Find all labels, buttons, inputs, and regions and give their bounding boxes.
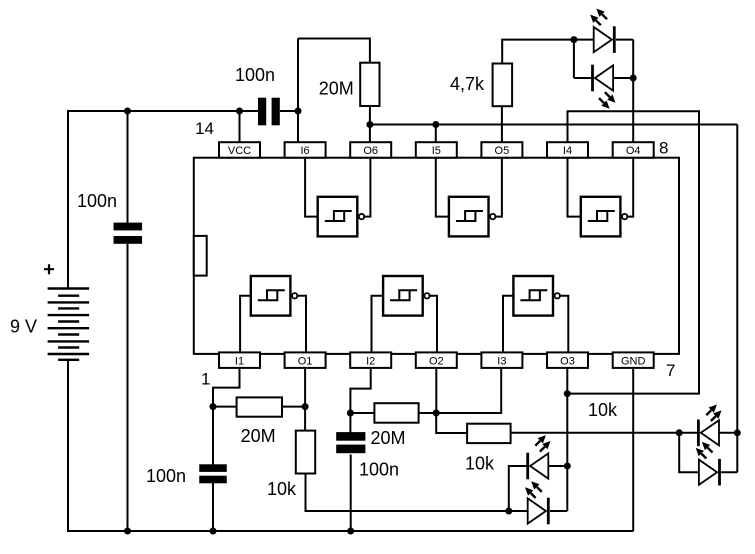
gate U1D input wire	[568, 158, 581, 217]
resistor 10k at O2	[467, 424, 511, 443]
junction ground decoupling	[124, 528, 131, 535]
wire D3 anode lead	[549, 465, 567, 467]
svg-text:I6: I6	[301, 145, 310, 157]
gate U1F input wire	[305, 158, 318, 217]
junction O2 node	[433, 410, 440, 417]
junction O3 node	[564, 390, 571, 397]
svg-text:100n: 100n	[359, 459, 399, 479]
svg-text:I5: I5	[432, 145, 441, 157]
wire C1 bottom lead	[212, 483, 214, 531]
svg-text:20M: 20M	[319, 79, 354, 99]
wire 20M bottom lead	[369, 106, 371, 125]
wire D4 cathode lead	[550, 510, 567, 512]
svg-text:1: 1	[201, 370, 210, 389]
LED D4	[528, 498, 546, 523]
capacitor 100n oscillator 1	[199, 464, 227, 472]
wire I5 pin drop	[435, 125, 437, 143]
junction LED pair 3 left	[676, 429, 683, 436]
junction D3 anode	[564, 463, 571, 470]
junction node I1	[210, 403, 217, 410]
wire 20M top lead	[369, 38, 371, 63]
op-amp gate U1C (I3/O3)	[513, 276, 553, 316]
IC orientation notch	[194, 236, 207, 276]
wire D2 anode lead	[614, 77, 633, 79]
svg-text:I3: I3	[497, 355, 506, 367]
svg-text:7: 7	[666, 361, 675, 380]
wire decoupling cap top	[127, 111, 129, 223]
wire 20M right lead	[282, 406, 305, 408]
junction node I2	[347, 410, 354, 417]
gate U1B output wire	[429, 296, 437, 353]
wire LED pair 1 right bus to O4	[632, 40, 634, 143]
wire D1 cathode lead	[616, 39, 633, 41]
junction D2 anode	[630, 75, 637, 82]
junction ground C2	[347, 528, 354, 535]
wire O6 net right drop	[736, 125, 738, 473]
wire I6 riser	[297, 39, 299, 143]
wire O3 bus down	[566, 394, 568, 511]
LED D1	[594, 27, 612, 52]
junction decoupling cap	[124, 108, 131, 115]
svg-text:100n: 100n	[77, 191, 117, 211]
wire O2 node to 10k	[436, 413, 467, 433]
wire battery negative down	[67, 360, 69, 531]
LED D3	[530, 453, 548, 478]
op-amp gate U1B (I2/O2)	[383, 276, 423, 316]
resistor 20M oscillator 2	[374, 403, 418, 423]
junction O1 node	[302, 403, 309, 410]
gate U1E output wire	[494, 158, 502, 217]
capacitor 100n oscillator 2	[336, 432, 365, 441]
junction I6 node	[295, 108, 302, 115]
wire D5 cathode lead	[679, 432, 698, 434]
svg-text:O4: O4	[626, 145, 641, 157]
wire O1 drop	[304, 368, 306, 431]
wire D4 anode lead	[509, 510, 528, 512]
wire battery positive up to VCC rail	[67, 111, 69, 289]
wire D6 cathode lead	[721, 471, 737, 473]
junction LED pair 1 left	[570, 36, 577, 43]
wire O2 drop	[435, 368, 437, 413]
wire I3 drop and link	[436, 368, 501, 413]
wire 4,7k top lead	[502, 40, 574, 64]
pin box I1	[219, 352, 260, 368]
resistor 20M oscillator 6	[360, 63, 379, 106]
svg-text:I2: I2	[366, 355, 375, 367]
resistor 20M oscillator 1	[237, 397, 282, 416]
svg-text:14: 14	[195, 119, 214, 138]
gate U1D output wire	[626, 158, 633, 217]
resistor 10k at O1	[296, 431, 315, 474]
pin box O4	[613, 142, 654, 158]
LED D6	[699, 460, 717, 485]
svg-text:O3: O3	[560, 355, 575, 367]
wire 10k O1 to LED pair 2	[306, 474, 509, 512]
svg-text:O6: O6	[363, 145, 378, 157]
LED D5	[701, 420, 719, 445]
op-amp gate U1F (I6/O6)	[318, 197, 358, 237]
svg-text:VCC: VCC	[228, 145, 251, 157]
pin box O5	[481, 142, 522, 158]
pin box VCC	[219, 142, 260, 158]
pin box O1	[285, 352, 326, 368]
pin box I2	[350, 352, 391, 368]
resistor 4,7k	[493, 64, 512, 107]
wire 10k O2 to LED pair 3	[511, 432, 680, 434]
battery 9V	[48, 287, 90, 289]
wire O6 net rail to right	[370, 124, 737, 126]
wire O6 pin drop	[369, 125, 371, 143]
svg-text:O2: O2	[429, 355, 444, 367]
gate U1A output wire	[296, 296, 306, 353]
svg-text:I4: I4	[563, 145, 572, 157]
pin box I4	[547, 142, 588, 158]
svg-text:9 V: 9 V	[10, 317, 37, 337]
wire ground rail	[67, 530, 634, 532]
gate U1C input wire	[503, 296, 513, 353]
svg-text:O1: O1	[298, 355, 313, 367]
wire O5 riser to 4,7k	[501, 106, 503, 142]
wire I4 riser and link to O3 net	[567, 111, 699, 393]
capacitor 100n series to I6	[258, 98, 266, 126]
pin box O3	[547, 352, 588, 368]
svg-text:10k: 10k	[267, 479, 297, 499]
wire VCC pin drop	[239, 111, 241, 142]
capacitor 100n decoupling	[114, 223, 143, 231]
svg-text:100n: 100n	[146, 466, 186, 486]
wire 20M2 right lead	[419, 412, 437, 414]
IC body U1 (hex Schmitt trigger)	[194, 158, 679, 354]
LED D2	[595, 65, 613, 90]
svg-text:O5: O5	[495, 145, 510, 157]
wire LED pair 3 left bus down	[679, 433, 699, 472]
wire LED pair 2 left bus	[509, 466, 527, 511]
pin box GND	[613, 352, 654, 368]
svg-text:10k: 10k	[465, 454, 495, 474]
wire cap to I6 node	[280, 110, 298, 112]
gate U1A input wire	[240, 296, 251, 353]
wire LED pair 1 left bus	[573, 40, 575, 78]
wire VCC rail	[67, 110, 259, 112]
gate U1F output wire	[363, 158, 370, 217]
svg-text:GND: GND	[621, 355, 646, 367]
junction LED pair 2 left	[505, 508, 512, 515]
svg-text:20M: 20M	[371, 428, 406, 448]
svg-text:10k: 10k	[588, 400, 618, 420]
wire C2 bottom lead	[350, 455, 352, 532]
wire I1 jog to node 1	[213, 368, 240, 407]
wire GND drop	[632, 368, 634, 531]
pin box I6	[285, 142, 326, 158]
junction D5 anode	[734, 429, 741, 436]
svg-text:100n: 100n	[235, 65, 275, 85]
wire D1 anode lead	[574, 39, 594, 41]
wire I2 jog to node 2	[350, 368, 370, 413]
svg-text:I1: I1	[235, 355, 244, 367]
op-amp gate U1D (I4/O4)	[581, 197, 621, 237]
svg-text:20M: 20M	[241, 426, 276, 446]
gate U1E input wire	[436, 158, 449, 217]
wire node to 20M left	[213, 406, 237, 408]
wire node to 20M2 left	[350, 412, 374, 414]
svg-text:8: 8	[659, 139, 668, 158]
junction VCC pin	[236, 108, 243, 115]
gate U1B input wire	[372, 296, 384, 353]
pin box I5	[416, 142, 457, 158]
pin box O2	[416, 352, 457, 368]
op-amp gate U1E (I5/O5)	[449, 197, 489, 237]
wire O3 drop	[566, 368, 568, 394]
wire D5 anode lead	[720, 432, 738, 434]
wire C2 top lead	[349, 413, 351, 433]
wire oscillator top link	[298, 38, 370, 40]
wire D2 cathode lead	[574, 77, 592, 79]
wire C1 top lead	[212, 407, 214, 465]
wire decoupling cap bottom	[127, 244, 129, 531]
junction I5 tap	[432, 121, 439, 128]
op-amp gate U1A (I1/O1)	[251, 276, 291, 316]
junction ground C1	[210, 528, 217, 535]
svg-text:4,7k: 4,7k	[450, 74, 485, 94]
label battery plus	[44, 264, 54, 274]
pin box I3	[481, 352, 522, 368]
junction O6 node	[366, 121, 373, 128]
pin box O6	[350, 142, 391, 158]
gate U1C output wire	[559, 296, 568, 353]
